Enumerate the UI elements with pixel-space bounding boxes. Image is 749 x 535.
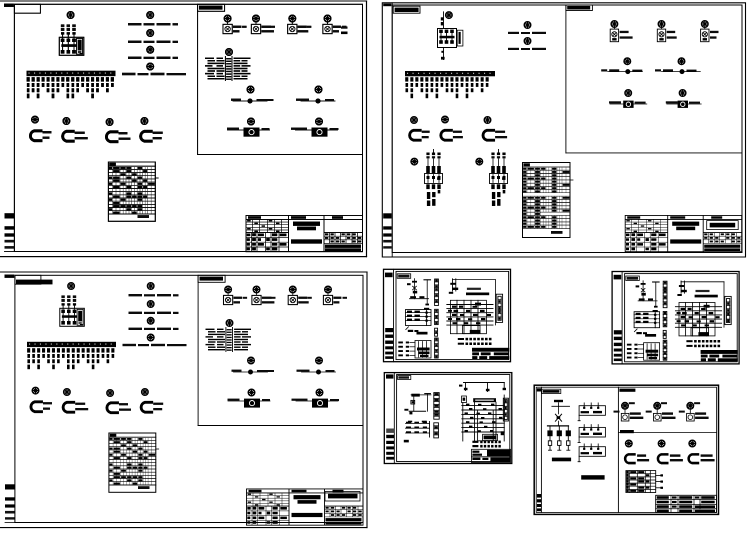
- schedule leader tick: [155, 177, 158, 179]
- right terminal ladder terminals: [499, 300, 501, 320]
- socket X4 label top: [153, 132, 163, 134]
- sheet2 feeder 5 cable 2: [426, 88, 429, 92]
- sheet3 number box: [325, 492, 360, 502]
- meter wiring title: [467, 288, 481, 290]
- unit U1 rating label: [233, 26, 242, 28]
- terminal 4 block: [226, 66, 231, 67]
- breaker QF1 aux contact column: [77, 38, 83, 54]
- terminal 2 block: [226, 61, 231, 62]
- starter A phase tag 3: [437, 153, 440, 156]
- terminal ladder 1 rung 7: [435, 299, 439, 301]
- sheet2 feeder 8 label: [440, 77, 443, 81]
- sheet1 revision mark: [341, 32, 348, 35]
- sheet2 title right grid rules: [703, 233, 742, 244]
- sheet2 busbar WB1: [405, 71, 495, 76]
- starter B phase tag 1: [491, 153, 494, 156]
- socket symbol X3: [106, 131, 117, 143]
- feeder 1 circuit label: [27, 77, 30, 81]
- oneline switch blob: [557, 416, 561, 419]
- terminal 3 block: [226, 63, 231, 64]
- sheetB title cell 1: [472, 451, 479, 453]
- schedule table frame: [108, 162, 155, 221]
- sheetB riser 1: [413, 395, 415, 411]
- sheetD unit U1 label top: [630, 412, 641, 414]
- metering circuit 1 label right: [257, 99, 274, 101]
- control bus T stem: [426, 280, 428, 305]
- margin label block: [4, 4, 14, 7]
- wire list row 1 item 3: [473, 338, 476, 341]
- unit 1 stem: [227, 22, 229, 25]
- small sheet margin rule: [393, 269, 395, 361]
- schedule col rule 13: [147, 166, 149, 214]
- boxed device 1 wire: [228, 129, 270, 131]
- feeder 14 cable text 3: [91, 94, 94, 99]
- sheet2 boxed device 1 wire: [610, 103, 647, 105]
- legend box 3 terminal 1: [583, 448, 585, 450]
- signal row 2 wire: [410, 346, 415, 348]
- sheet2 feeder 10 cable 2: [451, 88, 454, 92]
- legend box 1 inner label: [581, 411, 589, 413]
- oneline drop to switch: [558, 406, 560, 414]
- schedule col rule 7: [131, 166, 133, 214]
- sheet2 panel label text: [567, 6, 590, 10]
- sheet2 feed tag a: [441, 17, 444, 20]
- legend box 2 terminal 1: [583, 428, 585, 430]
- sheet2 QF1 pole 3 stem: [451, 33, 453, 40]
- sheetD title cell 8: [679, 501, 692, 504]
- starter A contactor pole 1: [427, 175, 429, 183]
- oneline feeder 3 terminal: [567, 449, 570, 451]
- terminal ladder 4 rung 6: [435, 354, 439, 356]
- terminal 9 wire label left b: [217, 78, 225, 79]
- margin block 4: [5, 240, 15, 243]
- small sheet margin block 1: [385, 328, 393, 332]
- sheet2 schedule col rule 5: [540, 167, 542, 229]
- small sheet inner frame: [396, 271, 509, 359]
- legend box 2 tick 2: [590, 425, 592, 430]
- feeder 9 cable text 2: [67, 88, 70, 92]
- sheetD title cell 10: [657, 505, 669, 508]
- pole 1 upper contact: [61, 32, 64, 34]
- terminal 6 wire label right b: [242, 70, 248, 71]
- wire list row 1 item 6: [485, 338, 488, 341]
- sheetB aux box: [462, 396, 467, 403]
- sheetB terminal ladder 2 rung 3: [434, 431, 439, 433]
- sheetB margin block 5: [386, 452, 394, 455]
- sheet2 riser 2 label left: [508, 48, 519, 50]
- terminal 5 wire label left a: [208, 68, 217, 69]
- sheet2 feeder 13 cable 1: [466, 83, 469, 87]
- sheet2 outer frame: [382, 3, 745, 257]
- wire list row 2 item 2: [469, 343, 472, 346]
- signal row 1 contact: [406, 342, 409, 344]
- sheetD socket X3 label bottom: [701, 459, 715, 461]
- sheet2 socket X3 label top: [495, 131, 505, 133]
- relay rung 1 node: [425, 311, 428, 314]
- right terminal ladder frame: [498, 296, 501, 320]
- sheetD socket X1 label bottom: [637, 459, 649, 461]
- terminal ladder 4 rung 2: [435, 343, 439, 345]
- sheet1 title approval stamps: [247, 233, 287, 250]
- feeder 15 cable text 2: [96, 88, 99, 92]
- feeder 17 cable text 2: [106, 88, 109, 92]
- terminal 4 wire label left a: [205, 65, 213, 66]
- schedule col rule 4: [122, 166, 124, 214]
- terminal ladder 4 rung 5: [435, 351, 439, 353]
- sheetD table row 1: [626, 473, 656, 475]
- sheetD margin block 2: [537, 499, 541, 502]
- legend box 2: [579, 427, 605, 437]
- feeder 11 cable text 1: [76, 83, 79, 87]
- sheet2 metering circuit 1 wire: [608, 71, 643, 73]
- sheet2 feeder 1 cable 1: [406, 83, 409, 87]
- sheetD title frame: [656, 495, 717, 512]
- sheetD title col 4: [699, 495, 701, 509]
- sheet2 feeder 5 cable 3: [426, 94, 429, 99]
- sheet2 QF1 pole 1 stem: [440, 33, 442, 40]
- unit meter M12: [289, 15, 296, 22]
- sheetB top rail: [411, 394, 431, 396]
- feeder 1 cable text 1: [27, 83, 30, 87]
- signal row 1 label: [398, 342, 403, 344]
- legend box 1 inner label 2: [593, 411, 602, 413]
- breaker QF1 pole 3 stem: [73, 42, 75, 50]
- relay rung 2 device: [415, 315, 420, 317]
- schedule col rule 12: [144, 166, 146, 214]
- feeder 10 cable text 1: [72, 83, 75, 87]
- starter A contactor box: [425, 174, 443, 184]
- terminal 7 wire label left a: [205, 73, 214, 74]
- sheet2 schedule row 2: [523, 173, 571, 175]
- sheetB terminal ladder 2 terminals: [434, 426, 437, 434]
- terminal 2 wire label left b: [217, 60, 225, 61]
- sheetD socket symbol X2: [658, 453, 668, 464]
- starter B contactor contact 3: [503, 176, 506, 179]
- control rung 1 contact b: [419, 296, 424, 298]
- sheet2 schedule row 18: [523, 224, 571, 226]
- sheet2 schedule col rule 12: [559, 167, 561, 229]
- schedule row rule 10: [108, 197, 155, 199]
- oneline feeder 3 breaker: [566, 430, 571, 436]
- starter A contact stack 3: [437, 166, 441, 173]
- feeder 13 circuit label: [86, 77, 89, 81]
- sheet2 schedule row 12: [523, 205, 571, 207]
- sheet2 feeder 15 cable 1: [476, 83, 479, 87]
- metering device 2: [316, 99, 321, 104]
- sheetB terminal ladder 1 terminals: [434, 393, 438, 416]
- sheet2 feeder 13 label: [466, 77, 469, 81]
- sheet2 margin block 5: [383, 246, 391, 248]
- legend box 3 inner label 2: [593, 452, 602, 454]
- sheet2 QF1 pole 3 top: [450, 30, 454, 33]
- schedule row rule 4: [108, 178, 155, 180]
- sheetD socket X2 label bottom: [670, 459, 683, 461]
- starter B contact stack 3: [502, 166, 506, 173]
- sheetB bottom label box: [483, 434, 498, 440]
- terminal ladder 4 frame: [435, 338, 439, 358]
- margin base line: [5, 250, 15, 252]
- sheet2 feeder 7 label: [435, 77, 438, 81]
- terminal 2 wire label right b: [242, 60, 248, 61]
- sheet2 schedule row 6: [523, 185, 571, 187]
- starter B wire tag 3: [502, 156, 505, 158]
- metering circuit 2 wire: [301, 100, 335, 102]
- right terminal ladder rung 2: [498, 302, 501, 304]
- sheet2 schedule col rule 10: [553, 167, 555, 229]
- schedule cell entries: [109, 167, 155, 213]
- sheetB wire list row 2 label: [472, 445, 478, 447]
- boxed device 1 label right: [262, 128, 270, 130]
- busbar WB1: [27, 71, 116, 76]
- sheetD title cell 16: [695, 510, 715, 512]
- metering circuit 2 label left: [296, 99, 309, 101]
- sheetD margin rule: [540, 387, 542, 512]
- sheetB relay right bus: [429, 422, 431, 438]
- sheet2 boxed device 1 port: [626, 102, 630, 106]
- sheetD corner label box: [542, 389, 561, 393]
- busbar label speckles: [29, 72, 112, 75]
- signal row 3 contact: [406, 350, 409, 352]
- boxed device 2 body: [312, 128, 328, 137]
- sheet1 title scale/date row: [325, 245, 361, 248]
- schedule col rule 5: [125, 166, 127, 214]
- drawout unit U2: [251, 24, 260, 33]
- sheet2 metering 1 label right: [632, 70, 642, 72]
- right terminal ladder rung 4: [498, 309, 501, 311]
- breaker QF1 pole 1 stem: [62, 42, 64, 50]
- terminal 1 block: [226, 58, 231, 59]
- relay rung 1: [406, 312, 432, 314]
- feeder 3 cable text 2: [37, 88, 40, 92]
- signal relay cluster c: [420, 355, 429, 357]
- sheet2 feeder 11 label: [455, 77, 458, 81]
- socket symbol X1: [30, 130, 41, 142]
- sheet2 schedule col rule 11: [556, 167, 558, 229]
- riser circuit 1 label mid: [144, 23, 155, 25]
- sheetD unit U3 label bottom: [695, 417, 709, 419]
- feeder 6 cable text 2: [52, 88, 55, 92]
- sheetB grid left bus: [462, 403, 464, 441]
- sheet2 schedule footer note: [551, 231, 563, 234]
- starter B phase tag 3: [502, 153, 505, 156]
- terminal ladder 1 frame: [435, 279, 439, 306]
- sheetB title black cell: [487, 450, 510, 456]
- terminal 4 wire label left b: [217, 65, 224, 66]
- signal row 4 contact: [406, 354, 409, 356]
- terminal 1 wire label right a: [234, 58, 242, 59]
- sheet2 schedule col rule 14: [565, 167, 567, 229]
- feeder 6 cable text 1: [52, 83, 55, 87]
- wire list row 2 item 7: [489, 343, 492, 346]
- sheetB margin block 2: [386, 435, 394, 438]
- sheet2 feeder 5 cable 1: [426, 83, 429, 87]
- boxed device 1 label left: [227, 128, 239, 130]
- pole 1 upper stem: [62, 35, 64, 38]
- feeder 1 cable text 2: [27, 88, 30, 92]
- terminal 9 wire label left a: [208, 78, 217, 79]
- feeder 7 cable text 2: [57, 88, 60, 92]
- starter A wire tag 1: [426, 156, 429, 158]
- feeder 12 cable text 1: [81, 83, 84, 87]
- feeder 18 circuit label: [111, 77, 114, 81]
- sheetB wire list row 1 label: [472, 441, 478, 443]
- sheet2 QF1 pole 1 bottom: [439, 40, 443, 44]
- sheetB wire list row 2 item 1: [480, 445, 482, 448]
- legend box 2 terminal 3: [597, 428, 599, 430]
- riser meter M2: [147, 12, 154, 19]
- sheet2 drawout unit U3: [701, 29, 709, 42]
- legend box 2 tick 1: [583, 425, 585, 430]
- terminal 8 wire label left b: [217, 76, 225, 77]
- unit U1 aux label: [242, 26, 247, 28]
- breaker QF1 trip bar: [61, 44, 76, 47]
- terminal 5 wire label right b: [242, 68, 248, 69]
- sheet2 socket meter M6: [484, 117, 491, 124]
- schedule footer rule: [108, 213, 155, 215]
- sheet2 riser 1 label mid: [521, 32, 530, 34]
- sheetD socket X3 label top: [701, 454, 713, 456]
- feeder 6 circuit label: [51, 77, 54, 81]
- terminal ladder 1 rung 8: [435, 302, 439, 304]
- control riser 1 breaker glyph: [413, 286, 417, 290]
- legend box 1 terminal 1: [583, 407, 585, 409]
- unit U3 aux label: [307, 26, 312, 28]
- starter B cable text mid: [497, 192, 500, 197]
- sheetD right panel label 2: [620, 430, 634, 433]
- sheet2 unit U2 label top: [667, 31, 676, 33]
- sheetB margin block 4: [386, 446, 394, 449]
- sheetB relay rung 3: [406, 432, 430, 434]
- sheetB grid row 7: [462, 431, 505, 433]
- terminal ladder 3 rung 1: [435, 330, 438, 332]
- sheet2 socket symbol X3: [483, 129, 494, 141]
- riser circuit 1 cable spec: [173, 23, 179, 25]
- sheetD table col 4: [649, 471, 651, 493]
- control riser 1 coil: [413, 291, 417, 294]
- starter A wire tag 3: [437, 156, 440, 158]
- sheet2 QF1 pole 2 bottom: [445, 40, 449, 44]
- sheet2 margin rule: [391, 3, 393, 257]
- sheetD socket meter M6: [689, 440, 696, 447]
- sheet frame outer top: [0, 0, 367, 2]
- sheetB bus end glyph: [409, 412, 412, 415]
- sheet2 metering meter M12: [678, 58, 685, 65]
- sheetB meter drop x504: [503, 383, 505, 390]
- sheet2 QF1 pole 2 top: [445, 30, 449, 33]
- sheet2 feeder 17 cable 1: [486, 83, 489, 87]
- starter B cable text left: [492, 192, 495, 199]
- panel box bottom edge: [198, 154, 363, 156]
- legend box 1 terminal 2: [590, 407, 592, 409]
- right terminal ladder rung 1: [498, 299, 501, 301]
- feeder 16 circuit label: [101, 77, 104, 81]
- sheet2 drawout unit U2: [657, 29, 665, 42]
- sheetB wire list row 1 item 2: [484, 441, 486, 444]
- sheetB rung 2 contact a: [406, 427, 411, 429]
- sheetD title cell 5: [701, 496, 715, 499]
- sheetB wire list row 2 item 5: [495, 445, 497, 448]
- riser meter M4: [147, 47, 154, 54]
- feeder 10 cable text 3: [72, 94, 75, 99]
- terminal ladder 2 rung 1: [435, 311, 439, 313]
- legend box 3 inner label: [581, 452, 589, 454]
- terminal 6 wire label right a: [234, 70, 241, 71]
- schedule col rule 9: [136, 166, 138, 214]
- sheet1 title right grid rules: [324, 233, 363, 244]
- sheet2 socket symbol X2: [441, 129, 452, 141]
- terminal 9 block: [226, 79, 231, 80]
- sheet2 feeder 6 cable 1: [431, 83, 434, 87]
- feeder 3 cable text 1: [37, 83, 40, 87]
- boxed device 1 port: [249, 130, 254, 135]
- terminal 9 wire label right a: [234, 78, 242, 79]
- sheetD title cell 7: [672, 501, 677, 503]
- sheetB relay rung 1: [406, 422, 430, 424]
- sheetB aux box element: [463, 398, 466, 401]
- right terminal ladder rung 6: [498, 316, 501, 318]
- sheetD table leader 2: [656, 481, 661, 483]
- schedule col rule 6: [128, 166, 130, 214]
- small sheet corner code: [398, 275, 409, 278]
- signal row 2 contact: [406, 346, 409, 348]
- sheet2 drawout unit U1: [610, 29, 618, 42]
- sheet2 title header right text: [711, 216, 722, 218]
- sheetD unit U2 label top: [662, 412, 673, 414]
- feeder 5 cable text 2: [47, 88, 50, 92]
- sheetB rung header b: [422, 421, 427, 423]
- sheetD title col 2: [677, 495, 679, 512]
- legend box 1 tail: [578, 415, 580, 420]
- relay rung 2 contact: [407, 315, 412, 317]
- terminal 3 wire label left b: [217, 63, 225, 64]
- breaker QF1 pole 1 bottom contact: [61, 50, 65, 54]
- socket X2 label top: [75, 132, 85, 134]
- sheet2 QF1 pole 3 bottom: [450, 40, 454, 44]
- metering grid col 1: [456, 300, 458, 333]
- terminal 8 block: [226, 76, 231, 77]
- starter B contactor contact 2: [497, 176, 500, 179]
- feeder 15 circuit label: [96, 77, 99, 81]
- phase label value 1: [61, 28, 64, 31]
- feeder 7 circuit label: [56, 77, 59, 81]
- right ladder outer: [496, 294, 502, 322]
- terminal 4 wire label right b: [242, 65, 251, 66]
- sheetD unit U1 top tag: [629, 402, 635, 404]
- sheet2 socket X2 label top: [453, 131, 462, 133]
- terminal strip right bar: [231, 57, 233, 81]
- unit U4 circuit label: [333, 30, 339, 32]
- small sheet margin block 3: [385, 341, 393, 344]
- riser circuit 1 label left: [128, 23, 142, 25]
- metering grid row 5: [447, 320, 493, 322]
- small sheet margin block 6: [385, 356, 393, 359]
- feeder 12 circuit label: [81, 77, 84, 81]
- mini title cell 6: [489, 356, 509, 359]
- schedule row rule 13: [108, 207, 155, 209]
- terminal ladder 1 rung 3: [435, 287, 439, 289]
- terminal ladder 4 rung 4: [435, 348, 439, 350]
- sheetD table col 2: [636, 471, 638, 493]
- sheet2 schedule col rule 3: [534, 167, 536, 229]
- sheetD unit U3 left tag: [679, 411, 685, 413]
- sheet2 feeder 7 cable 1: [436, 83, 439, 87]
- terminal ladder 1 rung 6: [435, 296, 439, 298]
- mini title cell 5: [479, 356, 487, 359]
- schedule col rule 8: [134, 166, 136, 214]
- mini title cell 2: [481, 352, 491, 355]
- oneline busbar: [548, 425, 569, 427]
- socket X1 label bottom: [43, 137, 50, 139]
